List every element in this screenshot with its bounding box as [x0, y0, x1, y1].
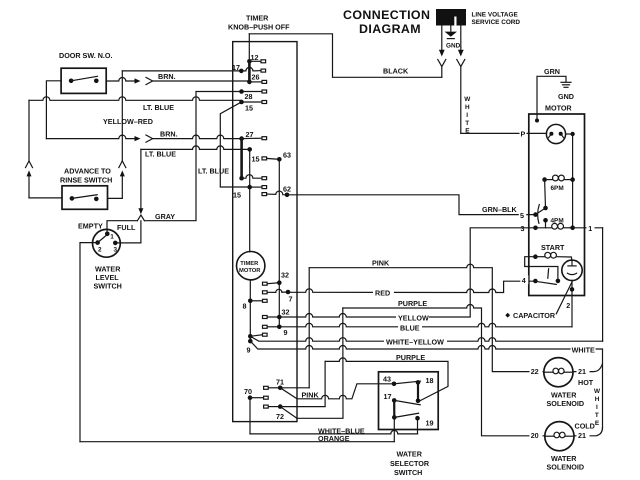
wire PINK timer 71 to selector 43: [280, 384, 394, 399]
wire WHITE to solenoids: [250, 341, 602, 427]
wire 6PM to centrifugal switch: [544, 180, 547, 208]
svg-text:5: 5: [520, 211, 524, 220]
capacitor lead down: [571, 281, 573, 327]
timer terminal 15 lower: [247, 185, 252, 190]
cold water solenoid: [545, 422, 574, 451]
svg-text:6PM: 6PM: [551, 185, 564, 192]
svg-text:P: P: [521, 129, 526, 138]
timer box: [233, 42, 297, 422]
wire PINK timer 71 to motor start: [280, 387, 309, 389]
wire white branch to hot 21: [573, 364, 603, 372]
svg-text:4PM: 4PM: [551, 218, 564, 225]
motor ground symbol: [561, 82, 571, 87]
svg-text:71: 71: [276, 378, 284, 387]
timer terminal 62: [285, 193, 290, 198]
timer terminal 15 upper: [239, 100, 244, 105]
timer terminal 32 upper: [263, 282, 268, 285]
timer 63 bus vertical: [278, 159, 280, 326]
svg-text:32: 32: [282, 308, 290, 317]
door switch box: [61, 68, 106, 93]
wire door switch right to timer 26 (BRN): [106, 78, 134, 81]
timer vertical 15 to timer motor: [249, 149, 251, 251]
water level terminal numbers: [98, 234, 118, 254]
wire vertical to rinse switch right: [121, 71, 123, 161]
svg-text:22: 22: [531, 367, 539, 376]
svg-text:START: START: [541, 243, 565, 252]
svg-text:SWITCH: SWITCH: [94, 281, 122, 290]
selector terminal 18: [416, 380, 421, 385]
wire BLUE timer 9 to capacitor 2: [279, 323, 572, 327]
label WATER SOLENOID hot: [547, 391, 585, 408]
svg-text:15: 15: [252, 154, 260, 163]
svg-text:8: 8: [243, 302, 247, 311]
wire 19 down: [417, 418, 419, 434]
timer terminal 63: [277, 157, 282, 162]
svg-text:W: W: [594, 388, 601, 395]
timer terminal 7: [263, 291, 268, 294]
timer terminal white-yellow contact: [248, 334, 253, 339]
start switch actuator: [547, 269, 550, 278]
timer terminal 71: [278, 386, 283, 391]
svg-text:LT. BLUE: LT. BLUE: [143, 103, 174, 112]
timer terminal 12: [247, 59, 252, 64]
svg-text:70: 70: [244, 387, 252, 396]
wire left vertical to rinse switch: [28, 100, 30, 160]
wire motor 1: [573, 227, 603, 229]
wire PURPLE2 to selector 18: [325, 358, 448, 401]
motor terminal 4: [533, 279, 538, 284]
svg-text:RINSE SWITCH: RINSE SWITCH: [60, 176, 112, 185]
svg-text:WHITE–YELLOW: WHITE–YELLOW: [386, 338, 444, 347]
wire pin to 63: [267, 157, 280, 160]
label EMPTY / FULL: [78, 222, 136, 233]
svg-text:BLUE: BLUE: [400, 323, 420, 332]
svg-text:EMPTY: EMPTY: [78, 222, 103, 231]
hot water solenoid: [544, 358, 573, 387]
svg-text:SOLENOID: SOLENOID: [547, 463, 585, 472]
wire WHITE-BLUE timer 70 to selector 19: [250, 430, 418, 433]
wire to timer 17: [122, 70, 241, 72]
wire GRN-BLK 62 to motor 5: [287, 195, 536, 215]
wire YELLOW timer 32 to motor 3: [279, 228, 535, 317]
rinse switch blade: [72, 195, 97, 199]
svg-text:7: 7: [289, 295, 293, 304]
wire WHITE-YELLOW to motor 1: [250, 336, 602, 341]
timer terminal 8: [248, 299, 253, 304]
wire door switch left down: [46, 81, 61, 139]
rinse switch box: [62, 186, 108, 210]
motor box: [529, 114, 585, 296]
timer terminal 72: [278, 404, 283, 409]
timer terminal 17: [239, 69, 244, 74]
svg-text:ADVANCE TO: ADVANCE TO: [64, 167, 111, 176]
svg-text:WHITE: WHITE: [572, 346, 595, 355]
wire 70 to white-blue: [249, 398, 251, 434]
motor right bus vertical: [572, 134, 574, 228]
svg-text:LT. BLUE: LT. BLUE: [145, 149, 176, 158]
title CONNECTION DIAGRAM: [343, 8, 430, 36]
label CAPACITOR with pointer: [556, 281, 572, 314]
svg-text:3: 3: [521, 224, 525, 233]
svg-text:HOT: HOT: [578, 378, 594, 387]
disconnect chevron rinse left: [26, 161, 33, 168]
timer terminal 62 pin: [262, 193, 267, 196]
svg-text:63: 63: [283, 151, 291, 160]
timer terminal 26: [247, 80, 252, 85]
label WHITE vertical: [464, 96, 471, 135]
svg-text:SOLENOID: SOLENOID: [547, 399, 585, 408]
svg-text:17: 17: [232, 63, 240, 72]
svg-text:YELLOW–RED: YELLOW–RED: [103, 117, 153, 126]
svg-text:12: 12: [251, 53, 259, 62]
start switch blade: [535, 281, 556, 284]
motor centrifugal actuator arc: [538, 205, 540, 224]
motor 1 / white-yellow right vertical: [602, 228, 604, 341]
wire protector to right bus: [566, 133, 573, 135]
wire GRAY from water level 1 to timer 28: [107, 221, 137, 234]
plug right prong wire (white) with arrow: [460, 26, 462, 51]
door switch blade: [71, 76, 97, 81]
svg-text:1: 1: [110, 234, 114, 241]
motor start winding: [533, 254, 538, 259]
svg-text:FULL: FULL: [117, 223, 136, 232]
svg-text:ORANGE: ORANGE: [318, 434, 350, 443]
svg-text:SERVICE CORD: SERVICE CORD: [472, 19, 521, 26]
label TIMER KNOB-PUSH OFF: [228, 14, 290, 32]
wire PURPLE timer 72 to cold solenoid: [343, 305, 545, 436]
motor protector circle: [546, 124, 565, 143]
svg-text:17: 17: [384, 392, 392, 401]
wire YELLOW-RED / BRN to timer 27: [46, 135, 134, 139]
svg-text:BRN.: BRN.: [158, 72, 176, 81]
wire 15 diagonal to lower 15: [220, 102, 249, 187]
svg-text:15: 15: [245, 104, 253, 113]
svg-text:H: H: [595, 396, 600, 403]
svg-text:GND.: GND.: [446, 43, 462, 50]
water level contacts: [105, 232, 110, 237]
svg-text:28: 28: [245, 92, 253, 101]
selector blade 17b: [394, 413, 418, 417]
selector blade 43-18: [394, 381, 421, 384]
label LINE VOLTAGE SERVICE CORD: [472, 12, 521, 26]
svg-text:MOTOR: MOTOR: [545, 103, 572, 112]
wire to rinse switch left: [29, 197, 62, 199]
svg-text:T: T: [595, 412, 599, 419]
svg-text:21: 21: [578, 431, 586, 440]
svg-text:PINK: PINK: [302, 391, 320, 400]
svg-text:43: 43: [383, 375, 391, 384]
motor centrifugal blade: [536, 208, 546, 215]
wire white to P: [461, 132, 547, 134]
svg-text:GRN: GRN: [544, 67, 560, 76]
svg-text:I: I: [596, 404, 598, 411]
timer bar 12-26: [248, 61, 251, 82]
timer terminal white contact: [248, 339, 253, 344]
svg-text:GRN–BLK: GRN–BLK: [482, 205, 518, 214]
wire 72 diagonal to purple bus: [280, 308, 343, 418]
motor terminal 5: [533, 212, 538, 217]
svg-text:GRAY: GRAY: [155, 212, 175, 221]
svg-text:PURPLE: PURPLE: [398, 299, 427, 308]
svg-text:4: 4: [522, 276, 526, 285]
wire timer 72 to purple: [280, 361, 325, 406]
svg-text:1: 1: [588, 224, 592, 233]
wire RED timer 7 to motor 4: [288, 281, 533, 292]
motor 4PM winding: [536, 227, 552, 229]
label WATER LEVEL SWITCH: [94, 265, 122, 291]
svg-text:3: 3: [114, 247, 118, 254]
svg-text:21: 21: [578, 367, 586, 376]
svg-text:DOOR SW. N.O.: DOOR SW. N.O.: [59, 51, 113, 60]
timer motor circle: [237, 252, 265, 280]
svg-text:27: 27: [246, 130, 254, 139]
timer terminal 15 mid contact: [247, 147, 252, 152]
svg-text:BLACK: BLACK: [383, 67, 409, 76]
svg-text:72: 72: [276, 412, 284, 421]
svg-text:T: T: [465, 120, 469, 127]
svg-text:E: E: [595, 420, 600, 427]
plug left prong wire (black) with arrow: [441, 26, 443, 51]
start winding bracket: [525, 257, 558, 281]
svg-text:DIAGRAM: DIAGRAM: [359, 22, 421, 36]
label WHITE vertical right: [594, 388, 601, 427]
wire rinse right: [108, 197, 123, 199]
svg-text:H: H: [465, 104, 470, 111]
svg-text:PURPLE: PURPLE: [396, 353, 425, 362]
timer bar 27: [240, 139, 243, 179]
selector bar 18: [417, 382, 419, 400]
timer terminal 70: [248, 395, 253, 400]
wire water level 2 down (orange rail): [80, 243, 98, 442]
svg-text:CAPACITOR: CAPACITOR: [513, 311, 556, 320]
svg-text:I: I: [466, 112, 468, 119]
selector bar 17: [393, 400, 395, 417]
wire BLACK from timer 12 to plug: [249, 34, 441, 78]
svg-text:TIMER: TIMER: [240, 261, 259, 267]
svg-text:SELECTOR: SELECTOR: [390, 459, 430, 468]
svg-text:CONNECTION: CONNECTION: [343, 8, 430, 22]
timer motor lead down: [249, 280, 251, 341]
svg-text:BRN.: BRN.: [160, 130, 178, 139]
disconnect chevron right prong: [457, 60, 465, 67]
label P: [520, 128, 527, 138]
disconnect arrow water level: [138, 208, 143, 214]
door switch contacts: [69, 79, 74, 84]
wire 17 down to orange: [393, 417, 395, 441]
wire LT. BLUE upper: [29, 97, 242, 102]
water level blade 2-1: [98, 234, 109, 243]
selector terminal 19: [415, 416, 420, 421]
svg-text:2: 2: [98, 247, 102, 254]
svg-text:2: 2: [566, 301, 570, 310]
motor 6PM winding: [542, 177, 547, 182]
selector terminal 17: [392, 398, 397, 403]
svg-text:62: 62: [283, 185, 291, 194]
wire white vertical to motor P: [460, 67, 462, 134]
plug: line voltage service cord: [436, 9, 466, 26]
wire LT. BLUE lower to timer: [141, 146, 250, 150]
svg-text:18: 18: [426, 376, 434, 385]
svg-text:20: 20: [531, 431, 539, 440]
water level switch circle: [93, 229, 121, 257]
svg-text:32: 32: [281, 271, 289, 280]
svg-text:LT. BLUE: LT. BLUE: [198, 167, 229, 176]
plug ground symbol: [445, 26, 457, 39]
wire ORANGE water level 2 to selector 17: [80, 441, 394, 443]
disconnect arrow rinse left: [27, 170, 32, 176]
disconnect chevron rinse right: [119, 161, 126, 168]
svg-text:YELLOW: YELLOW: [398, 314, 429, 323]
svg-text:W: W: [464, 96, 471, 103]
wire water level 3 to disconnect: [115, 221, 141, 243]
wire GRN to motor frame: [537, 76, 566, 120]
wire vertical lt.blue to water level disconnect: [140, 149, 142, 208]
svg-text:KNOB–PUSH OFF: KNOB–PUSH OFF: [228, 23, 290, 32]
wire white to cold 21: [574, 428, 602, 436]
svg-text:GND: GND: [558, 92, 574, 101]
selector blade 17: [394, 400, 420, 404]
timer terminal 27 lower contact: [239, 176, 244, 181]
capacitor circle: [562, 260, 582, 280]
svg-text:SWITCH: SWITCH: [394, 468, 422, 477]
selector switch box: [379, 372, 439, 430]
motor terminal 3: [533, 226, 538, 231]
label WATER SELECTOR SWITCH: [390, 449, 430, 477]
svg-text:15: 15: [233, 190, 241, 199]
timer terminal 28: [239, 89, 244, 94]
svg-text:19: 19: [426, 419, 434, 428]
selector terminal 43: [392, 382, 397, 387]
timer terminal 32 lower: [263, 316, 268, 319]
svg-text:9: 9: [247, 346, 251, 355]
label ADVANCE TO RINSE SWITCH: [60, 167, 112, 185]
svg-text:26: 26: [252, 73, 260, 82]
svg-text:9: 9: [284, 328, 288, 337]
motor contact above 4PM: [543, 218, 548, 223]
disconnect chevron on gray wire: [137, 215, 144, 221]
svg-text:TIMER: TIMER: [246, 14, 269, 23]
svg-text:COLD: COLD: [575, 422, 595, 431]
svg-text:RED: RED: [375, 289, 390, 298]
svg-text:LINE VOLTAGE: LINE VOLTAGE: [472, 12, 519, 19]
rinse switch contacts: [70, 196, 75, 201]
svg-text:MOTOR: MOTOR: [239, 267, 261, 274]
timer terminal 9: [263, 325, 268, 328]
svg-text:PINK: PINK: [372, 258, 390, 267]
disconnect arrow rinse right: [120, 170, 125, 176]
disconnect chevron left prong: [438, 60, 446, 67]
label WATER SOLENOID cold: [547, 454, 585, 471]
svg-text:WATER: WATER: [397, 449, 423, 458]
timer terminal 27: [239, 136, 244, 141]
